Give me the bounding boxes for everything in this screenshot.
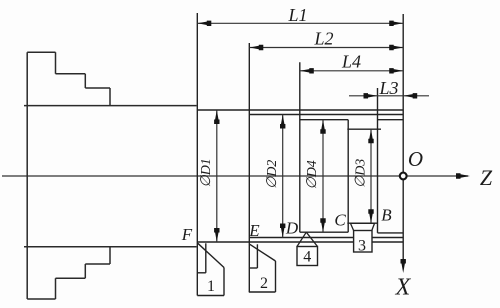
svg-text:L2: L2 xyxy=(313,29,333,49)
E vertical step face + extension xyxy=(248,43,250,292)
svg-text:X: X xyxy=(395,275,412,301)
arrowheads: L4 xyxy=(300,68,314,73)
D4 diameter dimension line xyxy=(322,120,324,233)
arrowheads: L1 xyxy=(197,21,211,26)
chuck jaw bottom outline xyxy=(27,247,110,299)
svg-text:B: B xyxy=(381,206,392,225)
tool 4 marker triangle xyxy=(297,232,318,246)
svg-text:D: D xyxy=(285,219,299,238)
tool 1 marker xyxy=(197,243,224,295)
arrowheads: diameter D1 xyxy=(214,110,219,124)
svg-text:∅D3: ∅D3 xyxy=(354,159,369,188)
svg-text:L3: L3 xyxy=(378,78,398,98)
arrowheads: diameter D3 xyxy=(368,129,373,143)
arrowheads: diameter D4 xyxy=(320,120,325,134)
D vertical step face + extension xyxy=(299,62,301,232)
F vertical blank left face + tool1 shank edge xyxy=(196,13,198,296)
centerline Z axis xyxy=(2,175,468,177)
svg-text:4: 4 xyxy=(303,249,311,266)
L1 dimension line xyxy=(197,22,403,24)
D3 diameter dimension line xyxy=(370,129,372,223)
thread root line top xyxy=(378,119,404,121)
D2 diameter dimension line xyxy=(282,115,284,238)
right end face + X axis line xyxy=(402,14,404,261)
svg-text:F: F xyxy=(181,225,193,244)
svg-text:Z: Z xyxy=(480,165,493,190)
D2 cut line bottom xyxy=(249,237,403,239)
L4 dimension line xyxy=(300,70,403,72)
thread root line bottom xyxy=(378,232,404,234)
C vertical step face xyxy=(347,120,349,233)
L2 dimension line xyxy=(249,47,403,49)
svg-text:L4: L4 xyxy=(341,52,361,72)
arrowhead: X axis xyxy=(401,259,406,273)
svg-text:L1: L1 xyxy=(287,5,307,25)
svg-text:E: E xyxy=(248,221,260,240)
arrowhead: Z axis xyxy=(456,173,470,178)
arrowheads: L2 xyxy=(249,45,263,50)
D4 section top edge xyxy=(300,119,348,121)
svg-text:∅D1: ∅D1 xyxy=(199,158,214,187)
D3 section top edge xyxy=(347,128,381,130)
tool 3 marker trapezoid xyxy=(351,223,375,230)
workpiece blank top edge xyxy=(197,109,403,111)
svg-text:C: C xyxy=(334,211,346,230)
tool 3 box xyxy=(354,231,372,253)
svg-text:∅D4: ∅D4 xyxy=(305,160,320,189)
arrowheads: diameter D2 xyxy=(280,115,285,129)
origin O node circle xyxy=(400,173,407,180)
L3 dimension line with outside arrows xyxy=(349,95,429,97)
chuck jaw top outline xyxy=(27,52,110,299)
D2 cut line top xyxy=(249,114,403,116)
svg-text:2: 2 xyxy=(260,275,268,292)
svg-text:∅D2: ∅D2 xyxy=(265,160,280,189)
D4 section bottom edge xyxy=(300,231,348,233)
D3 section bottom edge xyxy=(347,222,377,224)
svg-text:O: O xyxy=(408,147,423,171)
arrowheads: L3 outside xyxy=(364,93,378,98)
chuck face line bottom xyxy=(24,246,197,248)
svg-text:1: 1 xyxy=(207,278,215,295)
svg-text:3: 3 xyxy=(358,238,366,255)
D1 diameter dimension line xyxy=(216,110,218,242)
tool 4 box xyxy=(297,247,318,266)
workpiece blank bottom edge xyxy=(197,241,403,243)
B vertical thread start + L3 extension xyxy=(377,88,379,233)
tool 2 marker xyxy=(249,244,276,292)
chuck face line top xyxy=(24,105,197,107)
